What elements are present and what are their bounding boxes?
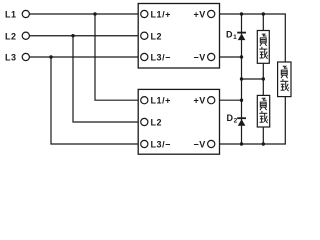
svg-text:−V: −V — [193, 140, 205, 150]
svg-text:+V: +V — [193, 96, 205, 106]
svg-text:+V: +V — [193, 10, 205, 20]
svg-text:−V: −V — [193, 52, 205, 62]
svg-text:D1: D1 — [226, 30, 237, 42]
svg-text:L1: L1 — [5, 10, 17, 20]
svg-text:L1/+: L1/+ — [151, 10, 171, 20]
svg-text:D2: D2 — [227, 113, 238, 125]
svg-text:L3: L3 — [5, 52, 17, 62]
svg-text:L3/−: L3/− — [151, 52, 171, 62]
svg-text:L2: L2 — [151, 31, 163, 41]
svg-text:L1/+: L1/+ — [151, 96, 171, 106]
svg-text:L2: L2 — [5, 31, 17, 41]
svg-text:L3/−: L3/− — [151, 140, 171, 150]
svg-text:L2: L2 — [151, 118, 163, 128]
